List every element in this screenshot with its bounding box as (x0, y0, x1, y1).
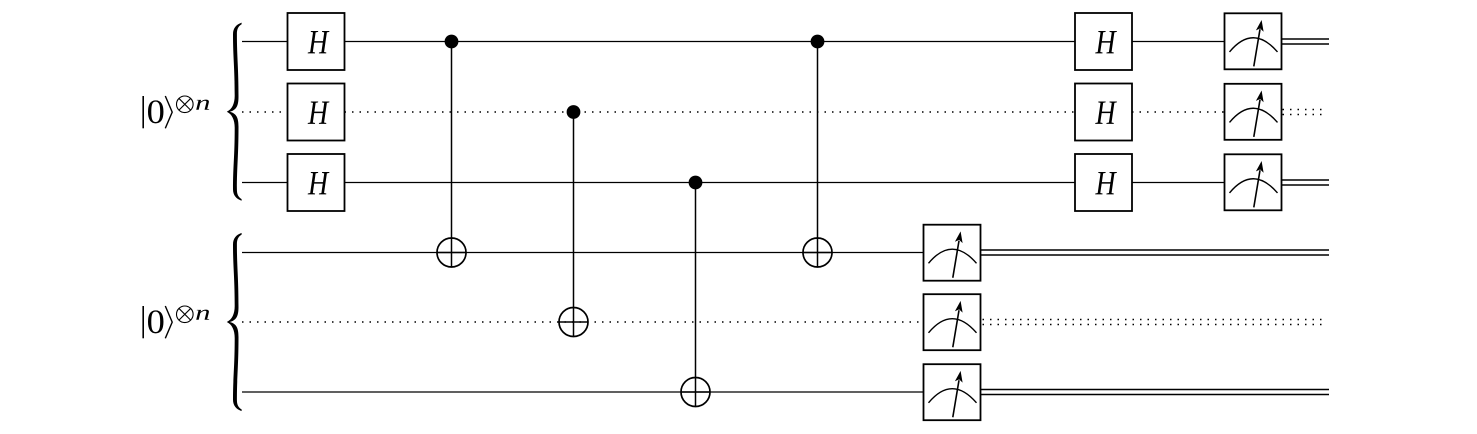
control dot CNOT4 q1 (811, 35, 825, 49)
control dot CNOT3 q3 (689, 176, 703, 190)
target CNOT4 q4 (803, 238, 832, 267)
vertical CNOT 4 (817, 42, 819, 268)
H gate q1 col1 (288, 13, 345, 70)
wire q1 segment c (1132, 41, 1225, 43)
H gate q3 col1 (288, 154, 345, 211)
wire q2 dotted segment a (242, 111, 288, 113)
measure q3 (1225, 154, 1282, 210)
H gate q2 col2 (1075, 84, 1132, 141)
wire q2 dotted segment b (345, 111, 1076, 113)
measure q4 (924, 225, 981, 281)
wire q1 segment a (242, 41, 288, 43)
label ket0n top group (143, 96, 209, 128)
measure q1 (1225, 13, 1282, 69)
target CNOT2 q5 (559, 308, 588, 337)
wire q3 segment c (1132, 182, 1225, 184)
vertical CNOT 1 (451, 42, 453, 268)
classical dotted double wire q2 (1283, 109, 1324, 111)
classical double wire q3 (1282, 179, 1330, 181)
target CNOT1 q4 (437, 238, 466, 267)
brace top group (227, 23, 242, 201)
wire q3 segment b (345, 182, 1076, 184)
wire q6 (242, 391, 923, 393)
control dot CNOT2 q2 (567, 105, 581, 119)
control dot CNOT1 q1 (445, 35, 459, 49)
classical dotted double wire q5 (983, 319, 1324, 321)
measure q5 (924, 294, 981, 350)
label ket0n bottom group (143, 306, 209, 338)
vertical CNOT 2 (573, 112, 575, 337)
classical double wire q1 (1282, 38, 1330, 40)
brace bottom group (227, 233, 242, 411)
H gate q2 col1 (288, 84, 345, 141)
wire q2 dotted segment c (1132, 111, 1225, 113)
wire q1 segment b (345, 41, 1076, 43)
classical double wire q4 (980, 249, 1329, 251)
measure q6 (924, 364, 981, 420)
classical double wire q6 (980, 389, 1329, 391)
wire q5 dotted (242, 321, 923, 323)
measure q2 (1225, 84, 1282, 140)
vertical CNOT 3 (695, 183, 697, 408)
wire q4 (242, 252, 923, 254)
target CNOT3 q6 (681, 378, 710, 407)
wire q3 segment a (242, 182, 288, 184)
H gate q3 col2 (1075, 154, 1132, 211)
H gate q1 col2 (1075, 13, 1132, 70)
